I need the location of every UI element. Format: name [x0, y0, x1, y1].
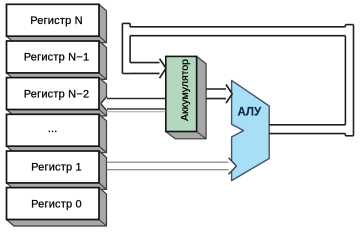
bus top horizontal wire: [130, 27, 345, 36]
register ellipsis box: [7, 114, 107, 152]
svg-text:Регистр 0: Регистр 0: [31, 198, 82, 210]
bus left vertical cap wire: [122, 23, 130, 73]
wire accumulator to ALU with arrow: [206, 85, 232, 104]
register R0 box: [7, 188, 107, 226]
svg-text:АЛУ: АЛУ: [237, 106, 262, 118]
wire accumulator to register N-2 with arrow: [101, 96, 166, 111]
ALU U1: [232, 80, 270, 180]
svg-text:Регистр N−2: Регистр N−2: [24, 88, 90, 100]
register R(N) box: [7, 4, 107, 42]
register R1 box: [7, 151, 107, 189]
bus right vertical cap wire: [345, 25, 353, 136]
thin wire accumulator bottom to register N-2 corner: [105, 111, 166, 113]
svg-text:Регистр N: Регистр N: [30, 15, 83, 27]
wire register 1 to ALU with arrow: [107, 158, 237, 175]
register R(N-2) box: [7, 78, 107, 116]
ALU output wire: [269, 125, 345, 134]
register R(N-1) box: [7, 41, 107, 79]
wire bus into accumulator with arrow: [130, 59, 166, 78]
svg-text:Аккумулятор: Аккумулятор: [179, 59, 191, 121]
svg-text:Регистр 1: Регистр 1: [31, 162, 82, 174]
svg-text:...: ...: [48, 123, 58, 135]
svg-text:Регистр N−1: Регистр N−1: [24, 52, 90, 64]
accumulator box: [166, 56, 206, 138]
